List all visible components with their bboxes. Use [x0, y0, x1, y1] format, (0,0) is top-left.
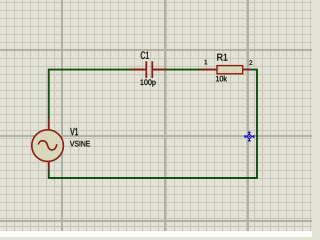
value 100p	[140, 79, 155, 86]
wire left lower	[48, 169, 50, 179]
capacitor C1	[131, 61, 166, 78]
label V1	[70, 128, 78, 135]
pin 2	[249, 60, 252, 65]
pin 1	[205, 60, 208, 64]
value VSINE	[70, 141, 90, 147]
source V1	[32, 118, 64, 169]
label R1	[217, 54, 227, 61]
wire top	[49, 70, 257, 119]
resistor R1	[201, 66, 251, 74]
wire bottom	[49, 177, 258, 179]
origin marker	[244, 132, 254, 142]
label C1	[141, 51, 149, 58]
value 10k	[216, 76, 227, 82]
wire right	[256, 69, 258, 178]
